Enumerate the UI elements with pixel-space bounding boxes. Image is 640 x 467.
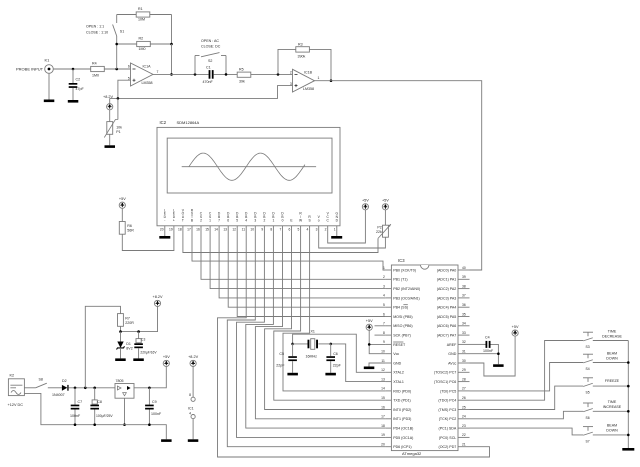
svg-text:5: 5 xyxy=(383,303,385,307)
wire R4 to IC1A inverting input xyxy=(104,68,130,71)
svg-text:100nF: 100nF xyxy=(483,349,494,353)
svg-text:(TDI) PC5: (TDI) PC5 xyxy=(440,389,456,393)
svg-text:9: 9 xyxy=(261,228,263,232)
IC3 pin 29 (TOSC2) PC7 xyxy=(434,368,470,375)
IC3 pin 39 (ADC1) PA1 xyxy=(437,275,470,282)
IC3 pin 17 INT1 (PD3) xyxy=(381,415,411,422)
svg-text:(ADC7) PA7: (ADC7) PA7 xyxy=(437,334,457,338)
diode D2 1N4007 xyxy=(48,379,69,397)
ground under P1 xyxy=(105,145,116,148)
IC3 pin 36 (ADC4) PA4 xyxy=(437,303,470,310)
label OPEN AC CLOSE DC xyxy=(201,39,221,49)
svg-text:C4: C4 xyxy=(485,336,490,340)
svg-text:+5V: +5V xyxy=(382,199,389,203)
wire LCD VCC to +5V xyxy=(328,210,366,243)
svg-text:OPEN : 1:1: OPEN : 1:1 xyxy=(86,25,104,29)
svg-text:33: 33 xyxy=(462,331,466,335)
svg-text:SDM12864A: SDM12864A xyxy=(177,120,200,125)
svg-text:S1: S1 xyxy=(120,30,124,34)
LCD pin 1 GND xyxy=(334,212,339,234)
capacitor C1 470nF xyxy=(203,65,214,84)
svg-text:8: 8 xyxy=(383,331,385,335)
svg-text:(ADC1) PA1: (ADC1) PA1 xyxy=(437,278,457,282)
svg-text:2: 2 xyxy=(325,228,327,232)
svg-text:+12V DC: +12V DC xyxy=(8,403,24,407)
svg-text:(ADC4) PA4: (ADC4) PA4 xyxy=(437,306,457,310)
svg-text:16: 16 xyxy=(196,228,200,232)
svg-text:14: 14 xyxy=(214,228,218,232)
push button S5 FREEZE xyxy=(583,378,628,395)
wire LCD pin 6 to IC3 pin 16 xyxy=(265,234,386,410)
svg-text:GND: GND xyxy=(393,361,401,365)
svg-text:R4: R4 xyxy=(92,62,97,66)
IC3 pin 25 (TMS) PC3 xyxy=(438,405,469,412)
wire XTAL1 to crystal xyxy=(329,343,385,382)
svg-text:12: 12 xyxy=(381,368,385,372)
resistor R3 390k xyxy=(296,42,310,58)
wire LCD pin 9 to IC3 pin 19 xyxy=(237,234,386,438)
svg-text:8V2: 8V2 xyxy=(126,346,132,350)
svg-text:MISO (PB6): MISO (PB6) xyxy=(393,324,412,328)
svg-text:+8.2V: +8.2V xyxy=(188,355,198,359)
svg-text:PROBE INPUT: PROBE INPUT xyxy=(16,66,44,71)
svg-text:10k: 10k xyxy=(116,126,122,130)
resistor R5 39k xyxy=(237,68,251,84)
svg-text:3: 3 xyxy=(254,219,256,223)
svg-text:PB4 (SS): PB4 (SS) xyxy=(393,306,408,310)
svg-text:AVcc: AVcc xyxy=(448,361,456,365)
svg-text:100nF: 100nF xyxy=(151,412,162,416)
svg-text:(OC2) PD7: (OC2) PD7 xyxy=(439,445,457,449)
crystal X1 16MHz xyxy=(293,330,331,359)
ground at IC3 GND pin 11 xyxy=(364,363,386,369)
svg-text:R3: R3 xyxy=(298,42,303,46)
svg-text:11: 11 xyxy=(242,228,246,232)
IC3 pin 24 (TCK) PC2 xyxy=(439,415,470,422)
capacitor C8 100uF/25V xyxy=(90,388,113,425)
svg-text:PD6 (ICP1): PD6 (ICP1) xyxy=(393,445,411,449)
LCD pin 2 VCC xyxy=(325,212,330,234)
LCD pin 19 LED+ xyxy=(169,208,176,233)
svg-text:1N4007: 1N4007 xyxy=(52,393,65,397)
LCD pin 5 R/W xyxy=(298,212,303,234)
microcontroller IC3 ATmega32 xyxy=(391,258,458,456)
svg-text:TIME: TIME xyxy=(608,329,617,333)
svg-text:IC3: IC3 xyxy=(398,258,405,263)
svg-text:AREF: AREF xyxy=(447,343,457,347)
LCD pin 9 DB2 xyxy=(261,212,266,234)
IC3 pin 12 XTAL2 xyxy=(381,368,404,375)
svg-text:16: 16 xyxy=(381,405,385,409)
svg-text:19: 19 xyxy=(169,228,173,232)
svg-text:-: - xyxy=(164,219,165,223)
ground at button bus xyxy=(622,448,634,451)
IC3 pin 3 PB2 (INT2/AIN0) xyxy=(383,284,420,291)
capacitor C7 100nF xyxy=(70,388,82,425)
svg-text:C1: C1 xyxy=(206,65,211,69)
svg-text:XTAL1: XTAL1 xyxy=(393,380,404,384)
IC3 pin 13 XTAL1 xyxy=(381,377,404,384)
wire LCD pin 16 to IC3 pin 2 xyxy=(201,234,386,280)
svg-text:12: 12 xyxy=(232,228,236,232)
capacitor C6 22pF xyxy=(326,344,341,373)
IC3 pin 35 (ADC5) PA5 xyxy=(437,312,470,319)
svg-text:LM358: LM358 xyxy=(303,87,314,91)
svg-text:DECREASE: DECREASE xyxy=(602,334,622,338)
svg-text:RESET: RESET xyxy=(393,343,406,347)
svg-text:39k: 39k xyxy=(239,79,245,83)
IC3 pin 1 PB0 (XCK/T0) xyxy=(383,266,416,273)
svg-text:+5V: +5V xyxy=(512,325,519,329)
svg-text:D1: D1 xyxy=(126,342,131,346)
wire LCD pin 15 to IC3 pin 3 xyxy=(210,234,386,289)
svg-text:1: 1 xyxy=(272,219,274,223)
svg-text:20: 20 xyxy=(160,228,164,232)
svg-text:1M0: 1M0 xyxy=(92,74,99,78)
wire P2 bottom to LCD Vo xyxy=(319,234,386,249)
resistor R7 220R xyxy=(118,314,135,327)
svg-text:17: 17 xyxy=(187,228,191,232)
ground under LCD pin 1 GND xyxy=(331,234,342,239)
svg-text:30: 30 xyxy=(462,359,466,363)
svg-text:TIME: TIME xyxy=(608,400,617,404)
svg-text:S4: S4 xyxy=(586,367,590,371)
svg-text:10: 10 xyxy=(381,350,385,354)
svg-text:+: + xyxy=(173,219,175,223)
LCD pin 7 DB0 xyxy=(279,212,284,234)
svg-text:R7: R7 xyxy=(125,316,130,320)
svg-text:7805: 7805 xyxy=(116,379,124,383)
svg-text:2: 2 xyxy=(383,275,385,279)
svg-text:PB1 (T1): PB1 (T1) xyxy=(393,278,407,282)
IC3 pin 8 SCK (PB7) xyxy=(383,331,411,338)
svg-text:(ADC0) PA0: (ADC0) PA0 xyxy=(437,268,457,272)
svg-text:26: 26 xyxy=(462,396,466,400)
label OPEN/CLOSE 1:1 1:10 xyxy=(86,25,108,35)
svg-text:(ADC6) PA6: (ADC6) PA6 xyxy=(437,324,457,328)
wire R5 to IC1B inverting input xyxy=(251,73,293,76)
svg-text:(ADC3) PA3: (ADC3) PA3 xyxy=(437,296,457,300)
svg-text:23: 23 xyxy=(462,424,466,428)
svg-text:0: 0 xyxy=(282,219,284,223)
svg-text:15: 15 xyxy=(381,396,385,400)
wire +12V to R7 xyxy=(85,306,120,388)
IC3 pin 31 GND xyxy=(448,350,469,357)
svg-text:IC1B: IC1B xyxy=(304,71,313,75)
svg-text:S5: S5 xyxy=(586,391,590,395)
wire IC3 pin 25 to button S5 xyxy=(470,386,584,409)
svg-text:2: 2 xyxy=(200,219,202,223)
connector K2 +12V DC xyxy=(8,374,25,407)
power +8.2V at P1 xyxy=(103,95,113,110)
IC3 pin 4 PB3 (OC0/AIN1) xyxy=(383,294,420,301)
wire IC3 pin 26 to button S3 xyxy=(470,341,584,401)
switch S1 xyxy=(113,15,125,45)
LCD pin 3 Vo xyxy=(316,215,321,233)
svg-text:28: 28 xyxy=(462,377,466,381)
svg-text:SCK (PB7): SCK (PB7) xyxy=(393,334,411,338)
svg-text:10M: 10M xyxy=(138,18,145,22)
svg-text:3: 3 xyxy=(290,82,292,86)
svg-text:R1: R1 xyxy=(138,7,143,11)
IC3 pin 34 (ADC6) PA6 xyxy=(437,322,470,329)
IC3 pin 11 GND xyxy=(381,359,401,366)
wire LCD pin 14 to IC3 pin 4 xyxy=(219,234,386,298)
svg-text:2: 2 xyxy=(290,70,292,74)
svg-text:1: 1 xyxy=(334,228,336,232)
LCD pin 11 DB4 xyxy=(242,212,248,234)
push button S4 BEAM DOWN xyxy=(583,351,628,371)
wire IC3 pin 23 to button S7 xyxy=(470,428,584,435)
IC3 pin 16 INT0 (PD2) xyxy=(381,405,411,412)
ground under LCD pin 20 LED- xyxy=(159,234,170,239)
wire LCD pin 8 to IC3 pin 18 xyxy=(246,234,386,429)
wire button common bus xyxy=(627,341,630,449)
svg-text:8: 8 xyxy=(189,393,191,397)
svg-text:X1: X1 xyxy=(311,330,315,334)
LCD pin 14 DB7 xyxy=(214,212,221,234)
IC3 pin 22 (PC0) SCL xyxy=(439,433,470,440)
IC3 pin 5 PB4 (SS) xyxy=(383,303,408,310)
svg-text:(TOSC2) PC7: (TOSC2) PC7 xyxy=(434,371,456,375)
power +5V at AVcc xyxy=(512,325,519,336)
svg-text:(TDO) PC4: (TDO) PC4 xyxy=(438,399,456,403)
push button S6 TIME INCREASE xyxy=(583,400,628,420)
svg-text:16MHz: 16MHz xyxy=(306,355,318,359)
IC3 pin 10 Vcc xyxy=(381,350,399,357)
svg-text:+8.2V: +8.2V xyxy=(152,295,162,299)
wire AVcc to +5V xyxy=(470,336,516,376)
svg-text:9: 9 xyxy=(383,340,385,344)
svg-text:22pF: 22pF xyxy=(276,364,285,368)
wire IC1B output to ADC0 xyxy=(315,81,482,270)
power +5V at regulator output xyxy=(163,355,170,366)
LCD pin 12 DB5 xyxy=(232,212,239,234)
LCD pin 13 DB6 xyxy=(223,212,230,234)
resistor R2 1M0 xyxy=(137,37,151,52)
IC3 pin 2 PB1 (T1) xyxy=(383,275,408,282)
svg-text:31: 31 xyxy=(462,350,466,354)
svg-text:(ADC5) PA5: (ADC5) PA5 xyxy=(437,315,457,319)
IC1 power pin 4 xyxy=(189,411,195,439)
svg-text:22pF: 22pF xyxy=(333,364,342,368)
svg-text:2: 2 xyxy=(263,219,265,223)
svg-text:11: 11 xyxy=(381,359,385,363)
svg-text:P2: P2 xyxy=(377,225,381,229)
svg-text:T: T xyxy=(182,219,184,223)
wire AREF/GND to ground xyxy=(470,344,500,364)
IC3 pin 33 (ADC7) PA7 xyxy=(437,331,470,338)
wire D2 to 7805 input xyxy=(69,387,115,390)
wire probe input to R4 xyxy=(53,68,91,71)
wire R6 to LCD LED+ xyxy=(122,234,174,251)
IC3 pin 14 RXD (PD0) xyxy=(381,387,411,394)
svg-text:10: 10 xyxy=(250,228,254,232)
svg-text:C3: C3 xyxy=(141,338,146,342)
svg-text:(TOSC1) PC6: (TOSC1) PC6 xyxy=(434,380,456,384)
svg-text:+5V: +5V xyxy=(362,199,369,203)
svg-text:47pF: 47pF xyxy=(76,87,85,91)
svg-text:1M0: 1M0 xyxy=(139,47,146,51)
svg-text:36: 36 xyxy=(462,303,466,307)
op-amp IC1A LM358 xyxy=(128,63,159,86)
svg-text:+5V: +5V xyxy=(163,355,170,359)
capacitor C2 47pF xyxy=(69,69,85,100)
svg-text:20: 20 xyxy=(381,443,385,447)
svg-text:C2: C2 xyxy=(76,78,81,82)
wire LCD pin 4 to IC3 pin 14 xyxy=(283,234,386,391)
svg-text:6: 6 xyxy=(128,65,130,69)
svg-text:37: 37 xyxy=(462,294,466,298)
svg-text:FREEZE: FREEZE xyxy=(605,379,620,383)
svg-text:3: 3 xyxy=(383,284,385,288)
svg-text:DOWN: DOWN xyxy=(606,429,618,433)
wire S1 ladder xyxy=(117,15,172,70)
svg-text:15: 15 xyxy=(205,228,209,232)
svg-text:4: 4 xyxy=(307,228,309,232)
wire LCD DB4 to PD7 xyxy=(218,234,490,458)
svg-text:(TCK) PC2: (TCK) PC2 xyxy=(439,417,457,421)
svg-text:22k: 22k xyxy=(376,230,382,234)
LCD module IC2 SDM12864A xyxy=(157,120,340,226)
power +5V at P2 xyxy=(382,199,389,210)
wire C1 to R5 xyxy=(214,73,237,76)
IC3 pin 9 RESET xyxy=(383,340,406,347)
svg-text:40: 40 xyxy=(462,266,466,270)
op-amp IC1B LM358 xyxy=(290,69,320,92)
svg-text:35: 35 xyxy=(462,312,466,316)
svg-text:INT0 (PD2): INT0 (PD2) xyxy=(393,408,411,412)
svg-text:(TMS) PC3: (TMS) PC3 xyxy=(438,408,456,412)
svg-text:100µF/25V: 100µF/25V xyxy=(96,414,113,418)
svg-text:OPEN : AC: OPEN : AC xyxy=(201,39,219,43)
svg-text:+5V: +5V xyxy=(366,319,373,323)
push button S3 TIME DECREASE xyxy=(583,329,628,349)
wire SCK stub xyxy=(375,334,386,336)
ground under C5 xyxy=(287,373,298,376)
svg-text:38: 38 xyxy=(462,284,466,288)
svg-text:INCREASE: INCREASE xyxy=(603,405,622,409)
svg-text:7: 7 xyxy=(218,219,220,223)
LCD pin 18 VOUT xyxy=(178,208,185,233)
svg-text:470nF: 470nF xyxy=(203,80,214,84)
svg-text:PB0 (XCK/T0): PB0 (XCK/T0) xyxy=(393,268,416,272)
wire +5V to RESET and Vcc xyxy=(368,330,386,353)
wire IC3 pin 27 to button S4 xyxy=(470,363,584,391)
svg-text:PB2 (INT2/AIN0): PB2 (INT2/AIN0) xyxy=(393,287,420,291)
svg-text:4: 4 xyxy=(383,294,385,298)
svg-text:R2: R2 xyxy=(139,37,144,41)
svg-text:C9: C9 xyxy=(152,400,157,404)
svg-text:IC1A: IC1A xyxy=(143,64,152,68)
svg-text:S3: S3 xyxy=(586,345,590,349)
svg-text:IC2: IC2 xyxy=(160,120,167,125)
svg-text:DOWN: DOWN xyxy=(606,356,618,360)
svg-text:D2: D2 xyxy=(62,379,67,383)
svg-text:PB3 (OC0/AIN1): PB3 (OC0/AIN1) xyxy=(393,296,420,300)
IC3 pin 32 AREF xyxy=(447,340,470,347)
wire R ladder to IC1A output node xyxy=(170,44,173,76)
svg-text:XTAL2: XTAL2 xyxy=(393,371,404,375)
resistor R1 10M xyxy=(136,7,150,22)
IC1 power pin 8 xyxy=(189,367,195,402)
svg-text:CLOSE: DC: CLOSE: DC xyxy=(201,45,221,49)
svg-text:29: 29 xyxy=(462,368,466,372)
svg-text:CLOSE : 1:10: CLOSE : 1:10 xyxy=(86,31,108,35)
svg-text:C7: C7 xyxy=(78,400,83,404)
wire power ground rail xyxy=(24,393,166,439)
LCD pin 4 RS xyxy=(307,215,312,233)
IC3 pin 6 MOSI (PB5) xyxy=(383,312,413,319)
svg-text:4: 4 xyxy=(189,411,191,415)
svg-text:25: 25 xyxy=(462,405,466,409)
svg-text:14: 14 xyxy=(381,387,385,391)
svg-text:34: 34 xyxy=(462,322,466,326)
svg-text:17: 17 xyxy=(381,415,385,419)
switch S2 AC/DC bypass xyxy=(195,53,226,75)
waveform on LCD screen xyxy=(182,153,316,180)
svg-text:19: 19 xyxy=(381,433,385,437)
wire R3 to IC1B output xyxy=(309,49,332,82)
IC3 pin 26 (TDO) PC4 xyxy=(438,396,469,403)
svg-text:56R: 56R xyxy=(127,229,134,233)
svg-text:+5V: +5V xyxy=(119,197,126,201)
LCD pin 17 RSTB xyxy=(187,208,194,233)
capacitor C9 100nF xyxy=(145,388,162,425)
ground at power rail xyxy=(161,439,172,442)
capacitor C5 22pF xyxy=(276,344,297,373)
trimmer P2 22k xyxy=(376,210,391,239)
ground under D1 xyxy=(115,358,126,361)
svg-text:27: 27 xyxy=(462,387,466,391)
svg-text:13: 13 xyxy=(223,228,227,232)
svg-text:6: 6 xyxy=(288,228,290,232)
wire IC1A noninverting input to bias rail xyxy=(118,80,131,98)
svg-text:8: 8 xyxy=(270,228,272,232)
IC3 pin 7 MISO (PB6) xyxy=(383,322,413,329)
svg-text:o: o xyxy=(318,219,320,223)
svg-text:K1: K1 xyxy=(45,58,51,63)
LCD pin 20 LED- xyxy=(160,208,167,233)
svg-text:C6: C6 xyxy=(333,352,338,356)
IC1 power label xyxy=(188,406,194,410)
IC3 pin 27 (TDI) PC5 xyxy=(440,387,469,394)
power +8.2V at zener xyxy=(152,295,162,306)
svg-text:RXD (PD0): RXD (PD0) xyxy=(393,389,411,393)
svg-text:TXD (PD1): TXD (PD1) xyxy=(393,399,411,403)
svg-text:C5: C5 xyxy=(279,352,284,356)
wire 7805 output to +5V xyxy=(134,367,166,390)
IC3 pin 21 (OC2) PD7 xyxy=(439,443,470,450)
svg-text:6: 6 xyxy=(383,312,385,316)
svg-text:6: 6 xyxy=(227,219,229,223)
svg-text:21: 21 xyxy=(462,443,466,447)
svg-text:INT1 (PD3): INT1 (PD3) xyxy=(393,417,411,421)
svg-text:PD4 (OC1B): PD4 (OC1B) xyxy=(393,427,413,431)
power +8.2V at IC1 pin 8 xyxy=(188,355,198,366)
LCD pin 6 E xyxy=(288,219,293,234)
resistor R4 1M0 xyxy=(91,62,105,78)
svg-text:ATmega32: ATmega32 xyxy=(402,451,422,456)
svg-text:GND: GND xyxy=(448,352,456,356)
svg-text:R6: R6 xyxy=(127,224,132,228)
wire XTAL2 to crystal xyxy=(291,334,385,372)
resistor R6 56R xyxy=(119,208,134,234)
power +5V at R6 xyxy=(119,197,126,208)
switch S8 xyxy=(24,378,46,388)
IC3 pin 23 (PC1) SDA xyxy=(439,424,470,431)
IC3 pin 20 PD6 (ICP1) xyxy=(381,443,411,450)
